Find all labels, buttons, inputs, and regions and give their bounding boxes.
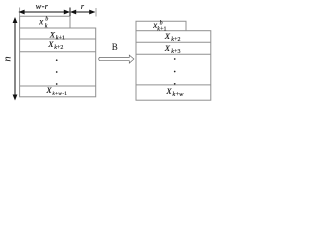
svg-text:X: X xyxy=(45,85,52,95)
svg-text:w: w xyxy=(179,91,184,98)
svg-text:x: x xyxy=(38,17,43,27)
svg-text:+2: +2 xyxy=(174,37,180,43)
svg-text:X: X xyxy=(164,31,171,41)
svg-text:n: n xyxy=(2,56,13,61)
svg-text:B: B xyxy=(112,42,118,52)
svg-text:k: k xyxy=(45,23,48,29)
svg-text:X: X xyxy=(164,43,171,53)
svg-text:X: X xyxy=(165,86,172,96)
svg-text:X: X xyxy=(47,39,54,49)
svg-text:+2: +2 xyxy=(57,45,63,51)
svg-text:b: b xyxy=(45,16,48,22)
svg-text:-1: -1 xyxy=(62,91,67,97)
svg-text:+1: +1 xyxy=(59,36,65,42)
svg-text:+3: +3 xyxy=(174,49,180,55)
